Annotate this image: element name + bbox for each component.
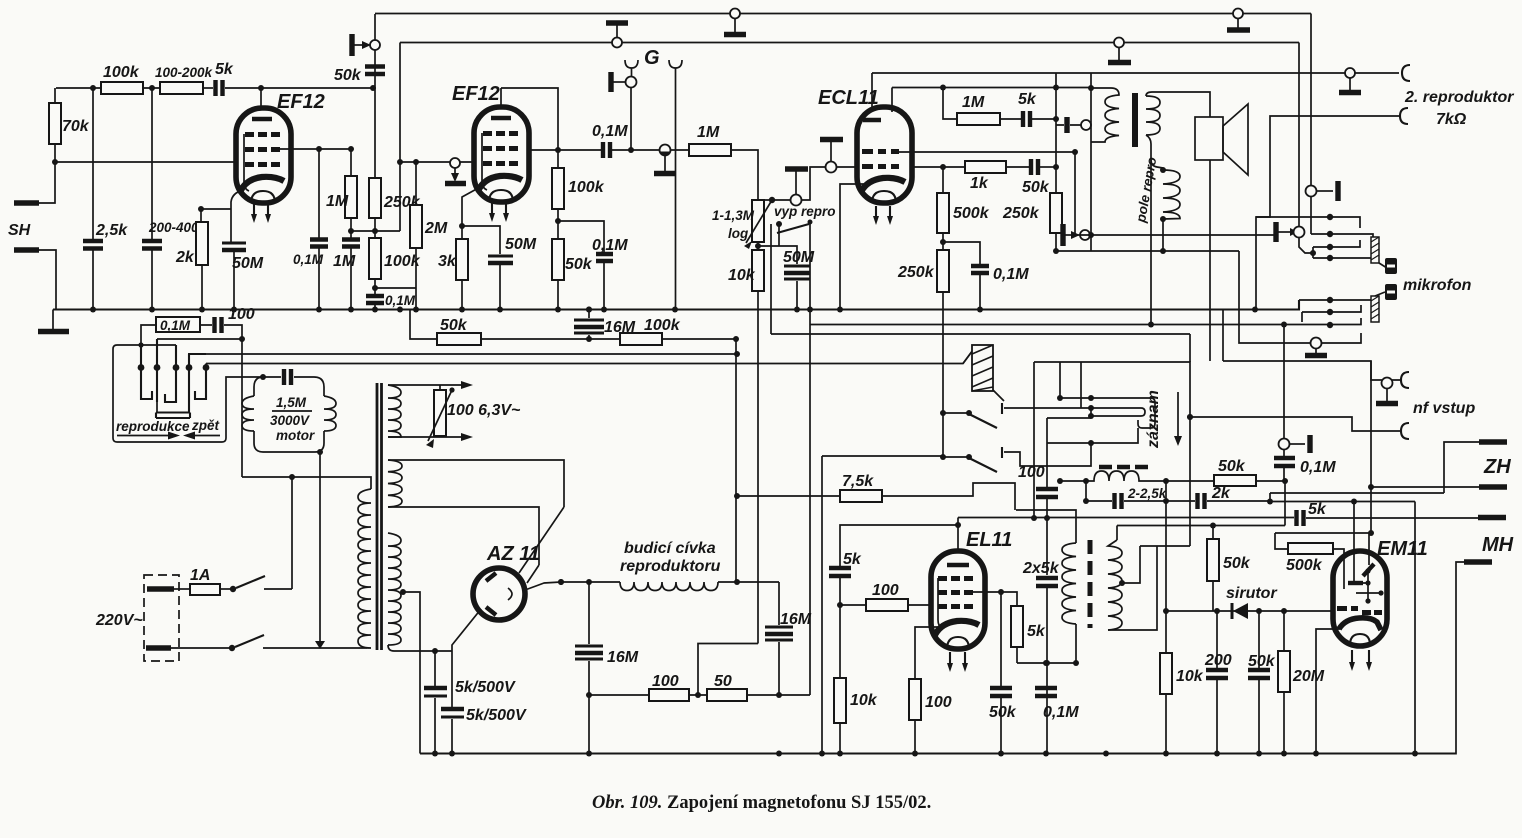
right coil [1108,540,1122,630]
svg-text:log: log [728,226,749,241]
capacitor 2k [1166,500,1195,502]
wire top rail 1 [375,13,1311,15]
oscillator coil line [1060,480,1086,482]
wire rail2 down to grid tube2 [399,43,401,232]
wire G left down to chassis connector [631,68,633,77]
svg-text:2. reproduktor: 2. reproduktor [1404,89,1514,106]
resistor 7,5k [734,493,740,499]
tube1 plate wire [280,148,351,150]
chassis stub on rail3 [1339,68,1361,93]
svg-text:100k: 100k [644,317,681,334]
record head fork [1075,152,1091,235]
jack upper contact row3 [1313,240,1360,247]
transformer core [1132,93,1138,147]
svg-text:50k: 50k [440,317,468,334]
resistor 50 [707,689,747,701]
ECL11 cathode arc [861,178,905,192]
ECL11 plate risers [872,73,892,112]
svg-text:10k: 10k [728,267,756,284]
EM11 target bar [1363,564,1374,576]
jack upper winding (hatched) [1371,237,1379,263]
heater winding 6,3V [388,385,401,437]
svg-text:MH: MH [1482,534,1514,556]
svg-text:50k: 50k [1223,555,1251,572]
jack upper plug block [1379,263,1387,268]
AZ11 filament lead right [525,582,561,590]
svg-text:EF12: EF12 [452,83,500,105]
chassis stub on rail1 at x735 [724,9,746,35]
terminal nf vstup upper [1401,372,1409,388]
capacitor 16M no.2 [778,582,780,625]
grounded shield connector on coupling line [654,145,676,174]
AZ11 plate leads [519,507,564,583]
wire rail1 drop to jack [1310,14,1312,235]
resistor 500k [1275,533,1288,549]
svg-text:250k: 250k [897,264,935,281]
contact 1 [141,345,152,399]
svg-text:100 6,3V~: 100 6,3V~ [447,402,521,419]
svg-text:50k: 50k [1218,458,1246,475]
switch blade lower [940,454,946,460]
chassis connector on monitor line [1063,224,1090,246]
power transformer primary [358,489,371,648]
EM11 bottom dome [1350,634,1370,645]
capacitor 0,1M decoupling [372,285,378,291]
EM11 electrodes [1348,581,1363,585]
svg-text:100k: 100k [103,64,140,81]
wire G right down to ground bus [675,68,677,310]
tube2 grid dashes [483,131,518,166]
mains switch lower [235,635,264,647]
output transformer primary riser [1090,73,1092,142]
capacitor 16M no.1 [588,582,590,644]
svg-text:100-200k: 100-200k [155,65,214,80]
EL11 plate riser [957,518,959,553]
resistor 100k [620,333,662,345]
tube2 plate wire [529,149,601,151]
svg-text:50M: 50M [232,255,264,272]
jack lower contact row3 [810,318,1361,325]
svg-text:reprodukce: reprodukce [116,419,190,434]
contact 3 [165,345,176,402]
chassis connector nf vstup [1376,378,1398,404]
wire SH lower to ground bus [39,250,56,310]
heater feed arrows [440,385,462,437]
wire record line [771,224,1190,362]
svg-text:16M: 16M [780,611,812,628]
sirutor rectifier line [1166,610,1333,612]
transformer secondary coil [1146,96,1160,135]
wire grid top cap tube1 [260,88,262,110]
svg-text:0,1M: 0,1M [592,123,628,140]
tube EF12 no.2 [474,107,529,202]
terminal 2.reproduktor lower [1400,108,1408,124]
contact 5 [195,364,206,400]
winding lower [388,533,401,645]
record line (lower) [206,350,973,364]
svg-text:sirutor: sirutor [1226,585,1277,602]
svg-text:100: 100 [872,582,899,599]
svg-text:2,5k: 2,5k [95,222,128,239]
wire to ZH [1270,492,1444,494]
AZ11 filament lead left [452,609,481,651]
svg-text:50k: 50k [1022,179,1050,196]
fuse 1A [174,588,190,590]
oscillator coil core dashes [1099,465,1148,469]
chassis stub on rail2 at x617 [606,23,628,48]
resistor 1k [911,166,965,168]
tube2 grid side rod [482,133,487,190]
tube2 cathode arc [478,176,522,191]
capacitor 5k feedback [1023,111,1030,127]
svg-text:50: 50 [714,673,732,690]
wire nf vstup upper line [1223,361,1401,380]
svg-text:0,1M: 0,1M [592,237,628,254]
tube2 metal shield connector [445,158,466,184]
capacitor 0,1M [1274,458,1295,466]
plate line to transformer [892,87,1091,89]
ECL11 bottom dome [872,191,896,203]
terminal ZH lower bar [1479,484,1507,489]
svg-text:50k: 50k [565,256,593,273]
node x152 [149,85,155,91]
wiper chassis connector [785,169,808,206]
svg-text:0,1M: 0,1M [993,266,1029,283]
wire grid line tube2 [400,161,473,163]
jack lower contact row4 with grounded circle [1305,338,1327,356]
capacitor 2-2,5k [1085,481,1087,501]
svg-text:1M: 1M [962,94,985,111]
chassis connector on drop [1306,181,1339,201]
resistor 1M grid [689,144,731,156]
svg-text:Obr. 109. Zapojení magnetofonu: Obr. 109. Zapojení magnetofonu SJ 155/02… [592,793,931,813]
potentiometer 1-1,3M log [752,200,764,242]
capacitor 0,1M coupling [603,142,610,158]
ground symbol [52,310,54,331]
resistor 100-200k [160,82,203,94]
svg-text:7,5k: 7,5k [842,473,874,490]
ECL11 pins [876,206,890,218]
svg-text:2x5k: 2x5k [1022,560,1060,577]
tube1 top electrode bar [252,117,272,121]
tube1 cathode wire to 2k / 50M [231,190,243,242]
svg-text:500k: 500k [953,205,990,222]
record switch box outline [1034,362,1190,546]
wire head bus to mains switch [242,477,371,489]
wire 100/50 node up to 10k chain [698,644,758,696]
B+ line to EL11 output transformer [1016,510,1076,543]
playback head switch box [113,345,263,442]
svg-text:1M: 1M [697,124,720,141]
tube EL11 [931,551,985,649]
EM11 pins [1352,650,1369,664]
switch blade upper [940,410,946,416]
resistor 50k [1166,480,1214,482]
svg-text:G: G [644,47,660,69]
resistor 20M [1281,608,1287,614]
ECL11 top electrode bars [863,118,881,122]
capacitor 50k coupling [1031,159,1038,175]
ECL11 triode cathode to ground [840,184,864,310]
wire pot top to ECL grid [764,167,825,200]
bottom supply bus [420,752,1456,754]
wire primary tap to monitor jack [1091,142,1274,251]
capacitor 2x5k [1036,578,1058,586]
wire 1M to pot [731,150,758,200]
svg-text:1M: 1M [333,253,356,270]
tube AZ11 rectifier [473,568,525,620]
svg-text:mikrofon: mikrofon [1403,277,1472,294]
tube ECL11 [857,107,912,203]
chassis stub on rail1 at x1238 [1227,9,1250,31]
EL11 screen wire [973,592,1017,606]
record line from box top [1047,418,1091,443]
svg-text:budicí cívka: budicí cívka [624,540,716,557]
terminal MH upper bar [1478,515,1506,520]
ground bus [53,300,1299,310]
svg-text:10k: 10k [850,692,878,709]
wire 5k cap to grid-cap node [225,87,375,89]
playback head [157,402,189,412]
motor lead down to mains [319,452,321,641]
tube2 top electrode bar [491,116,511,120]
svg-text:500k: 500k [1286,557,1323,574]
svg-text:220V~: 220V~ [95,612,143,629]
capacitor 0,1M [1035,688,1057,696]
capacitor 5k series to MH [1297,510,1304,526]
jack upper contact row1 [1256,217,1360,228]
svg-text:ZH: ZH [1483,456,1511,478]
mains switch upper [236,576,265,588]
capacitor 2,5k [92,88,94,239]
terminal nf vstup lower [1401,423,1409,439]
wire secondary top to speaker [1146,92,1210,117]
capacitor 200 [1214,608,1220,614]
EL11 beam plate lead [915,627,942,679]
jack upper contact row2 [1311,234,1373,238]
capacitor 50M cathode no.2 [488,255,513,258]
contact 2 to head [156,339,158,402]
wire 2M branch [375,248,416,310]
EL11 bottom dome [947,637,969,649]
capacitor 50M electrolytic [222,242,246,245]
EL11 grid dashes [938,576,973,609]
EL11 output transformer left coil [1062,543,1076,624]
svg-text:5k: 5k [843,551,862,568]
resistor 100k [374,231,376,238]
svg-text:20M: 20M [1292,668,1325,685]
resistor 100 [586,692,592,698]
feedback loop wire top [872,72,1091,74]
wire speaker bottom down [1209,160,1211,361]
resistor 1M feedback [943,88,957,120]
pickup terminal G left [625,60,638,68]
svg-text:reproduktoru: reproduktoru [620,558,721,575]
svg-text:100: 100 [652,673,679,690]
svg-text:10k: 10k [1176,668,1204,685]
AZ11 electrodes [486,573,496,615]
svg-text:3000V: 3000V [270,413,310,428]
node at 70k bottom [52,159,58,165]
svg-text:1,5M: 1,5M [276,395,307,410]
capacitor 1M [342,240,360,247]
svg-text:0,1M: 0,1M [1043,704,1079,721]
capacitor 0,1M [318,149,320,238]
svg-text:motor: motor [276,428,315,443]
head contact pins [138,364,210,371]
resistor 10k [757,242,759,250]
terminal ZH upper bar [1479,439,1507,444]
resistor 3k [456,239,468,280]
resistor 250k screen feed [374,65,376,178]
svg-text:2M: 2M [424,220,448,237]
record line (middle) [188,353,737,355]
svg-text:EM11: EM11 [1377,538,1428,560]
tube2 screen wire from top [501,88,558,168]
EM11 cathode arc [1339,618,1381,630]
svg-text:5k: 5k [1308,501,1327,518]
resistor 2M [415,162,417,205]
tube EF12 no.1 [236,108,291,203]
resistor 2k [196,222,208,265]
EM11 feed wires [1353,502,1355,582]
contact 4 [189,354,206,412]
capacitor 50k [1000,592,1002,686]
svg-text:16M: 16M [607,649,639,666]
tube EM11 [1333,551,1387,646]
grid cap connector ECL11 [820,140,843,173]
capacitor 5k/500V no.2 [451,651,453,707]
resistor 10k [1163,608,1169,614]
wire top rail 2 [400,42,1299,44]
EL11 pins [950,652,965,665]
mains plug 220V [144,575,179,661]
svg-text:2k: 2k [1211,485,1231,502]
wire 0,1M branch from jack row3 [1283,325,1285,441]
svg-text:7kΩ: 7kΩ [1436,111,1467,128]
svg-text:100: 100 [228,306,255,323]
svg-text:EL11: EL11 [966,529,1012,551]
record head line long (B line) [958,517,1294,519]
capacitor 50k [1256,608,1262,614]
svg-text:200: 200 [1204,652,1232,669]
capacitor 0,1M screen bypass [558,221,604,252]
wire top input line [56,87,101,89]
field coil pole repro [1160,167,1166,173]
capacitor 100 [1036,489,1058,497]
svg-text:záznam: záznam [1145,390,1162,449]
resistor 10k grid leak [839,605,841,678]
jack lower winding (hatched) [1371,296,1379,322]
input terminal SH upper [14,200,39,205]
grid feed 5k capacitor [840,525,958,566]
jack lower contact row1 [1299,299,1371,301]
tube1 pins [254,204,268,216]
transformer core [377,383,382,650]
tube1 cathode arc [240,177,284,192]
tube2 cathode network [462,186,482,239]
chassis stub on rail2 at x1119 [1108,38,1131,63]
wire [143,87,160,89]
svg-text:2-2,5k: 2-2,5k [1127,486,1168,501]
grid cap connector pentode [1064,117,1069,133]
wire G left to coupling node [630,87,632,150]
svg-text:0,1M: 0,1M [1300,459,1336,476]
jack lower contact row2 [1302,305,1361,312]
svg-text:nf vstup: nf vstup [1413,400,1475,417]
motor right winding [324,396,336,431]
node tube1 top cap [258,85,264,91]
coil bottom out [1108,546,1157,630]
resistor 0,1M with series capacitor 100 [156,317,200,332]
input terminal SH lower [14,247,39,252]
ECL11 grid row out to record bus [899,151,1075,153]
tube2 pins [492,203,506,215]
chassis connector above 0,1M [1279,435,1311,453]
svg-text:SH: SH [8,222,31,239]
terminal 2.reproduktor upper [1402,65,1410,81]
resistor 500k [940,164,946,170]
svg-text:50k: 50k [334,67,362,84]
tube1 grid side rod [244,134,249,191]
transformer core dashed [1088,540,1093,628]
resistor 50k screen tube2 [552,239,564,280]
winding taps [403,592,420,754]
tube2 bottom dome [489,190,513,202]
svg-text:50k: 50k [989,704,1017,721]
capacitor 200-400 [151,88,153,239]
svg-text:100: 100 [925,694,952,711]
transformer primary coil [1091,88,1119,142]
EM11 cathode wire [1316,629,1340,754]
svg-text:1-1,3M: 1-1,3M [712,208,755,223]
diode sirutor [1233,603,1248,619]
field exciter coil budici civka [561,581,620,583]
wire from box down [1046,518,1048,575]
capacitor 50k (screen top) [365,67,385,75]
svg-text:vyp repro: vyp repro [774,204,836,219]
wire 1M-250k junction [351,230,400,232]
bias trap (hatched) [963,350,1004,401]
resistor 50k (under EF12 no.1) [410,310,437,340]
resistor 5k screen [1011,606,1023,647]
resistor 70k [49,103,61,144]
motor left winding [242,396,254,431]
svg-text:70k: 70k [62,118,90,135]
svg-text:50M: 50M [783,249,815,266]
svg-text:0,1M: 0,1M [385,293,416,308]
EL11 top electrode bar [947,563,969,567]
wire nf vstup lower line [1190,417,1401,431]
capacitor 50M (ECL cathode) [758,246,797,264]
svg-text:5k: 5k [215,61,234,78]
svg-text:50M: 50M [505,236,537,253]
head switch feed wire [157,339,242,345]
svg-text:2k: 2k [175,249,195,266]
EM11 grid line [1275,532,1371,534]
motor with capacitor and label [260,374,266,380]
svg-text:0,1M: 0,1M [293,252,324,267]
terminal MH lower bar [1464,559,1492,564]
resistor 100k plate load tube2 [552,168,564,209]
svg-text:1k: 1k [970,175,989,192]
chassis connector on screen line [352,34,380,56]
node x93 [90,85,96,91]
svg-text:100k: 100k [568,179,605,196]
rheostat 100 [434,390,446,436]
svg-text:250k: 250k [1002,205,1040,222]
svg-text:100: 100 [1018,464,1045,481]
